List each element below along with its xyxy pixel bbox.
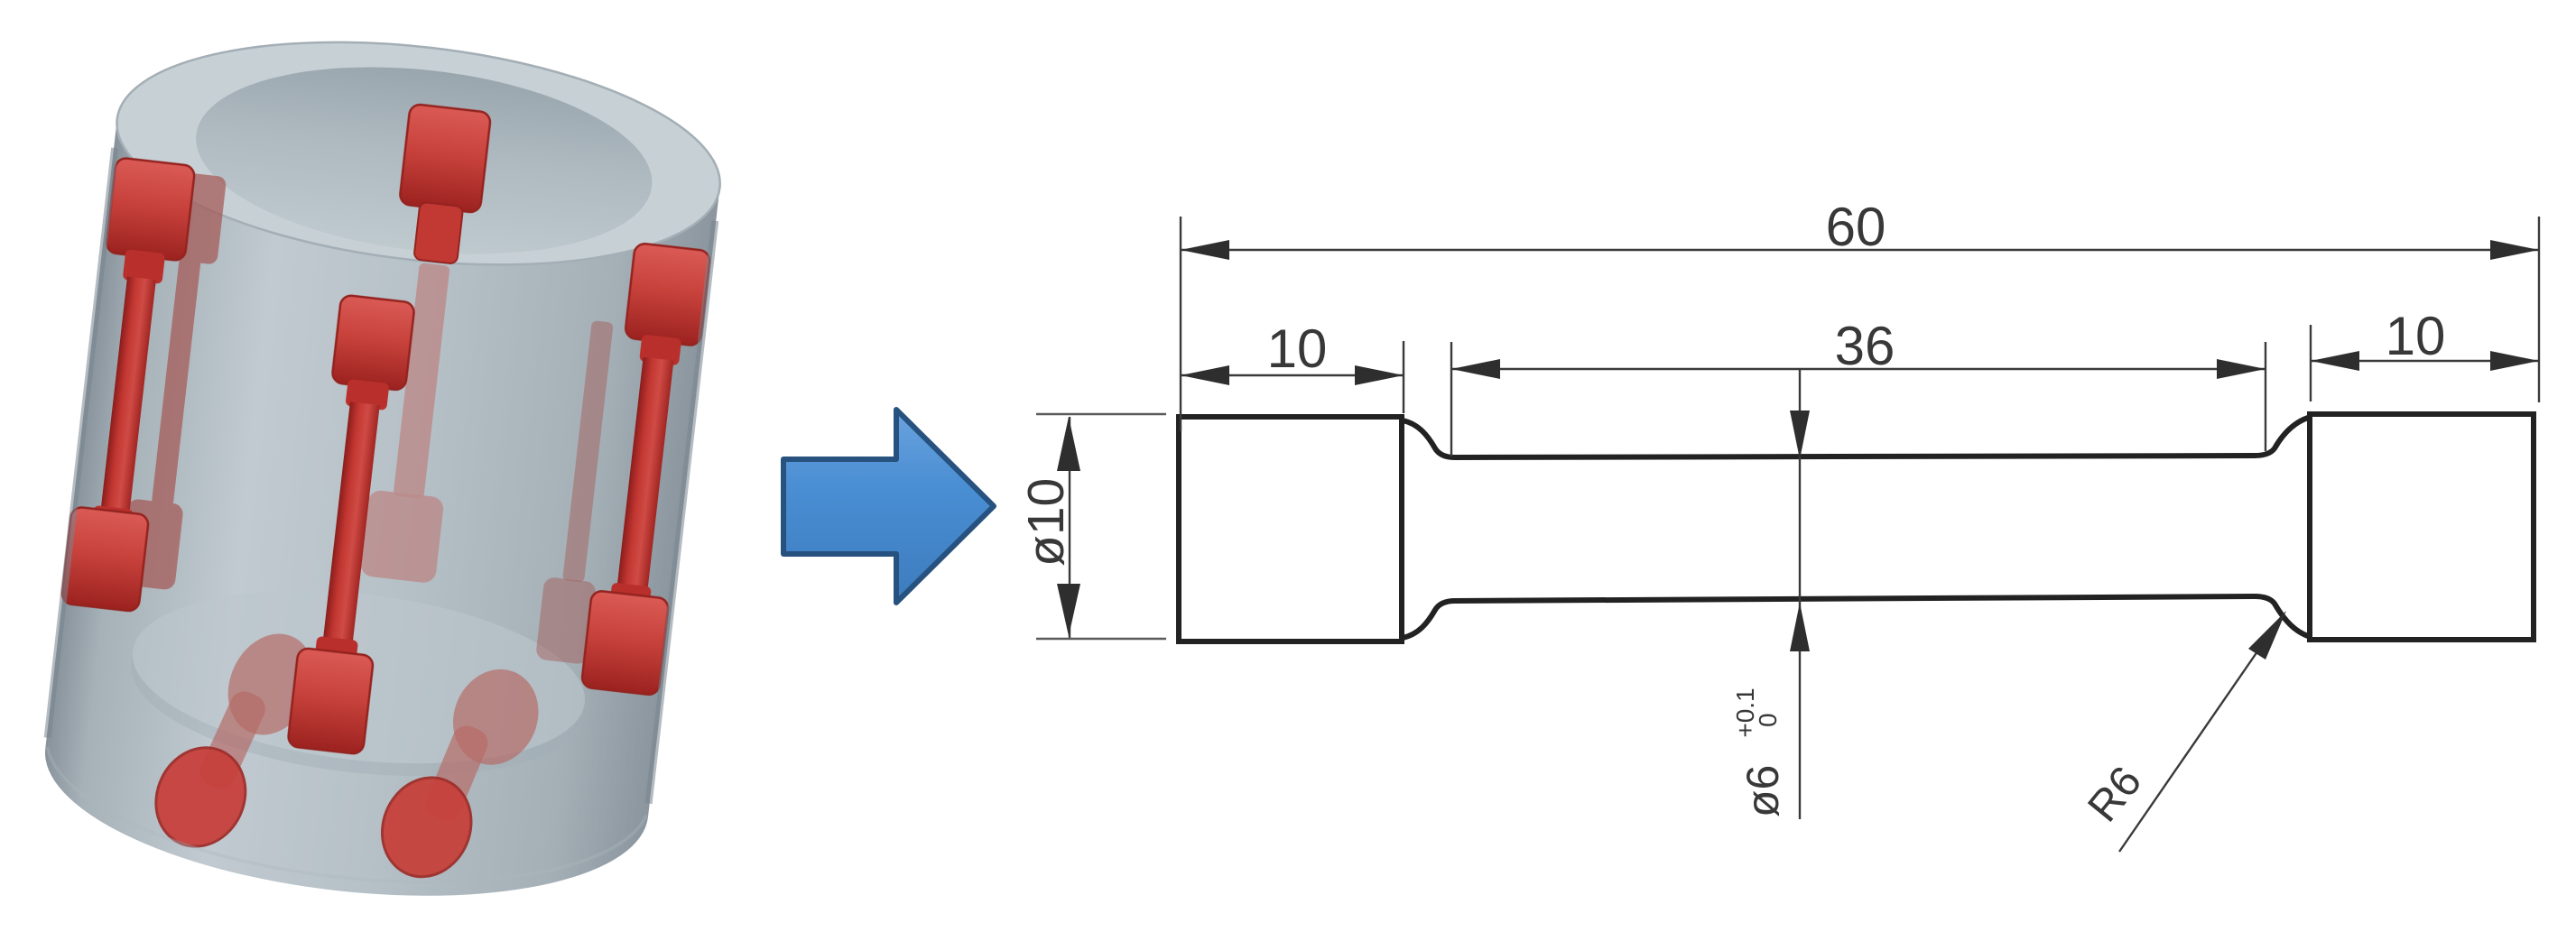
extension line left of 60 bbox=[1180, 217, 1181, 431]
arrowhead right 10 right bbox=[2490, 351, 2539, 371]
cavity inner-rim shadow bbox=[186, 134, 652, 276]
extension line at left block right edge bbox=[1403, 341, 1404, 413]
svg-text:10: 10 bbox=[2386, 306, 2446, 366]
cylinder top rim face bbox=[105, 14, 731, 294]
leader line R6 bbox=[2119, 616, 2282, 852]
svg-text:36: 36 bbox=[1835, 316, 1895, 376]
muted cap of specimen behind left wall bbox=[158, 171, 227, 265]
right specimen (dog-bone) bbox=[581, 243, 711, 697]
technical drawing of tensile specimen bbox=[1179, 414, 2534, 641]
extension line right of 36 bbox=[2265, 342, 2266, 451]
tilted specimen at cylinder bottom left (seen through wall) bbox=[140, 612, 329, 867]
arrowhead dia10 up bbox=[1057, 417, 1080, 471]
cavity floor front edge bbox=[122, 651, 585, 798]
svg-text:ø6+0.10: ø6+0.10 bbox=[1731, 687, 1788, 817]
arrowhead 60 left bbox=[1181, 240, 1229, 260]
dimension line left 10 bbox=[1181, 374, 1404, 376]
centre specimen (dog-bone) bbox=[287, 294, 415, 754]
extension line left of 36 bbox=[1450, 342, 1452, 457]
muted shaft of specimen behind right wall bbox=[562, 320, 614, 583]
cavity floor bbox=[124, 568, 595, 785]
arrowhead 60 right bbox=[2490, 240, 2539, 260]
right grip block bbox=[2310, 414, 2534, 640]
arrowhead dia6 down bbox=[1790, 411, 1810, 459]
gauge section top profile with fillets bbox=[1403, 418, 2308, 457]
tilted specimen at cylinder bottom right (seen through wall) bbox=[367, 647, 552, 898]
arrowhead dia6 up bbox=[1790, 603, 1810, 651]
dimension line right 10 bbox=[2311, 360, 2539, 362]
cylinder top rim outline bbox=[105, 14, 731, 294]
arrowhead R6 leader bbox=[2248, 611, 2286, 660]
left specimen (dog-bone) bbox=[61, 157, 196, 613]
dimension line 36 bbox=[1451, 368, 2266, 370]
cylinder left silhouette edge bbox=[48, 148, 115, 738]
svg-text:60: 60 bbox=[1826, 197, 1886, 257]
arrowhead 36 left bbox=[1451, 359, 1500, 379]
svg-text:10: 10 bbox=[1267, 318, 1328, 379]
cylinder bottom edge bbox=[36, 747, 646, 911]
arrowhead left 10 left bbox=[1181, 365, 1229, 385]
cylinder right silhouette edge bbox=[649, 221, 716, 804]
cylinder body wall bbox=[33, 14, 732, 925]
muted lower cap of top specimen (behind wall) bbox=[359, 489, 444, 584]
muted bottom cap of specimen behind left wall bbox=[118, 498, 183, 590]
arrowhead 36 right bbox=[2217, 359, 2266, 379]
top specimen cap and neck (inside opening) bbox=[393, 104, 491, 266]
extension line dia10 top bbox=[1036, 413, 1166, 415]
dimension line 60 bbox=[1181, 249, 2539, 251]
3D render of mould cylinder with embedded tensile specimens bbox=[32, 14, 732, 925]
muted lower shaft of top specimen (behind wall) bbox=[393, 263, 449, 499]
arrowhead right 10 left bbox=[2311, 351, 2359, 371]
cylinder inner cavity opening bbox=[186, 45, 662, 276]
dimension line dia10 vertical bbox=[1069, 417, 1070, 638]
arrowhead left 10 right bbox=[1355, 365, 1404, 385]
muted shaft of specimen behind left wall bbox=[152, 257, 201, 507]
extension line dia10 bottom bbox=[1036, 638, 1166, 640]
svg-text:ø10: ø10 bbox=[1017, 478, 1075, 567]
extension line at right block left edge bbox=[2310, 325, 2312, 401]
left grip block bbox=[1179, 417, 1402, 641]
arrowhead dia10 down bbox=[1057, 584, 1080, 636]
muted bottom cap of specimen behind right wall bbox=[535, 577, 597, 665]
gauge section bottom profile with fillets bbox=[1403, 596, 2308, 638]
blue rightward arrow bbox=[783, 410, 994, 603]
dimension line dia6 vertical bbox=[1799, 369, 1801, 819]
extension line right of 60 bbox=[2538, 217, 2540, 402]
